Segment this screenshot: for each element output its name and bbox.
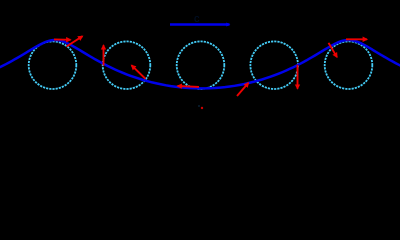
wave propagation arrow [170,23,230,26]
velocity arrow flank c1-c2 (up-right) [67,36,83,46]
velocity arrow east c4 (down) [297,65,299,89]
wave surface (trochoid) [0,40,400,88]
arrow into c5 from wave (down-right) [329,43,338,57]
orbit circle 4 [250,41,298,89]
velocity arrow crest c5 (right) [346,38,367,40]
arrow toward surface c3-c4 (up-right) [237,83,249,96]
svg-text:c: c [194,13,200,25]
velocity arrow trough c3 (left) [178,85,200,88]
velocity arrow c2 lower-right (up-left) [132,65,146,79]
orbit circle 1 [29,41,77,89]
faint blue speck [198,105,200,107]
small red dot [201,107,203,109]
velocity arrow west c2 (up) [103,45,105,65]
wave motion diagram [0,0,400,131]
velocity arrow crest c1 (right) [54,38,71,40]
orbit circle 3 [177,41,225,89]
orbit circle 5 [325,41,373,89]
orbit circle 2 [103,41,151,89]
